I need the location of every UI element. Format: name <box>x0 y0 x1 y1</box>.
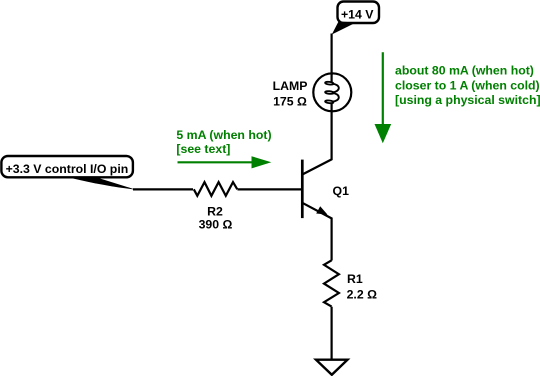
lamp filament coil bulge 2 <box>332 93 339 102</box>
svg-text:175 Ω: 175 Ω <box>273 94 307 108</box>
svg-text:R1: R1 <box>347 272 363 286</box>
svg-text:390 Ω: 390 Ω <box>199 218 233 232</box>
resistor R1 zigzag <box>324 260 339 306</box>
emitter lead <box>302 203 331 219</box>
emitter arrowhead <box>316 206 327 214</box>
green down arrow <box>382 52 384 124</box>
lamp lead-out wire <box>331 102 333 111</box>
lamp DS1 circle <box>313 73 351 111</box>
wire: emitter to R1 <box>331 218 333 261</box>
callout tail (+3.3V box to wire) <box>66 177 137 190</box>
green right arrow <box>178 161 253 163</box>
wire: R1 to ground <box>331 307 333 360</box>
lamp filament coil petal 1 <box>325 81 334 84</box>
svg-text:Q1: Q1 <box>333 184 350 198</box>
collector lead <box>302 159 331 174</box>
node +3.3V control pin callout box <box>1 156 133 177</box>
svg-text:R2: R2 <box>207 204 223 218</box>
svg-text:5 mA (when hot): 5 mA (when hot) <box>176 128 271 142</box>
svg-text:about 80 mA (when hot): about 80 mA (when hot) <box>395 64 534 78</box>
svg-text:+3.3 V control I/O pin: +3.3 V control I/O pin <box>6 162 129 176</box>
svg-text:closer to 1 A (when cold): closer to 1 A (when cold) <box>395 78 540 92</box>
ground symbol <box>316 360 348 375</box>
svg-text:[see text]: [see text] <box>176 142 230 156</box>
node +14V callout box <box>338 2 380 24</box>
wire: lamp to collector <box>331 111 333 161</box>
lamp filament coil petal 3 <box>325 100 334 103</box>
lamp filament coil bulge 1 <box>332 84 339 93</box>
wire: +14V to lamp top <box>331 34 333 76</box>
resistor R2 zigzag <box>194 182 238 196</box>
svg-text:+14 V: +14 V <box>341 8 374 22</box>
lamp lead-in wire <box>331 74 333 82</box>
callout tail (+14V box to wire) <box>332 22 356 35</box>
transistor Q1 <box>302 159 349 218</box>
wire: R2 to base <box>238 188 304 190</box>
svg-text:[using a physical switch]: [using a physical switch] <box>395 93 540 107</box>
base bar <box>301 160 304 219</box>
base wire from callout to R2 <box>133 188 193 190</box>
svg-text:LAMP: LAMP <box>273 79 308 93</box>
lamp filament coil petal 2 <box>325 91 334 94</box>
svg-text:2.2 Ω: 2.2 Ω <box>347 288 378 302</box>
